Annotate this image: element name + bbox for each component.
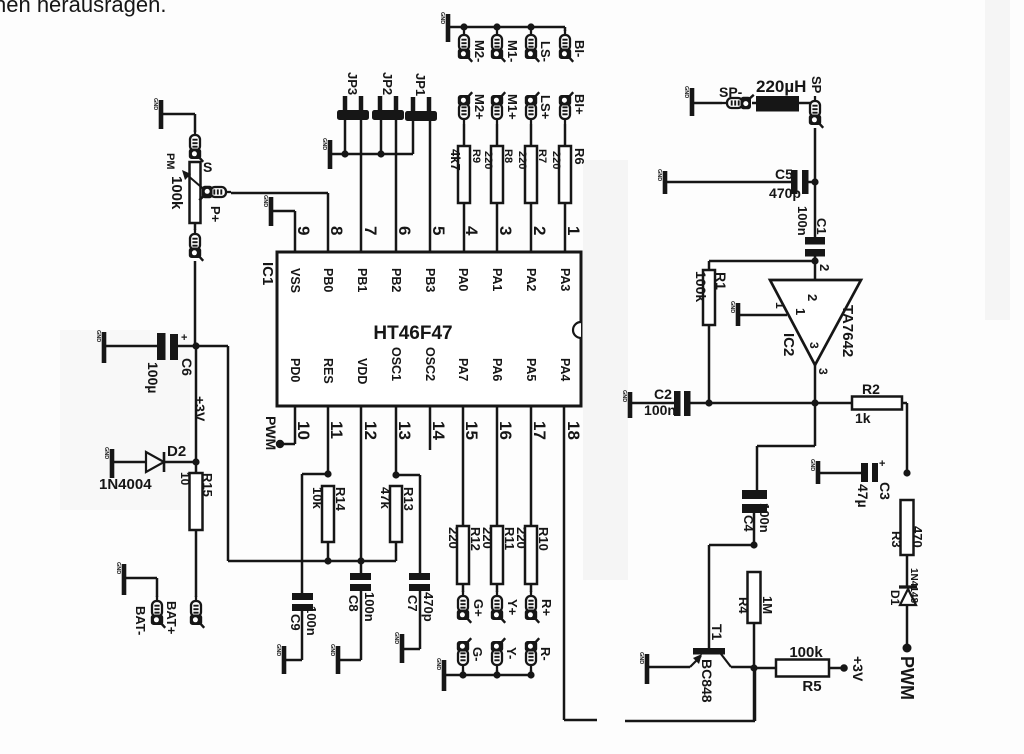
svg-text:M2-: M2- (472, 40, 487, 62)
svg-text:7: 7 (361, 226, 380, 235)
svg-text:M1+: M1+ (505, 94, 520, 120)
svg-text:PB1: PB1 (355, 268, 369, 292)
svg-text:SP: SP (809, 76, 824, 94)
svg-text:GND: GND (275, 644, 281, 656)
svg-text:4k7: 4k7 (448, 149, 463, 171)
svg-text:R14: R14 (333, 487, 348, 512)
svg-text:100n: 100n (757, 503, 772, 533)
svg-text:BC848: BC848 (699, 659, 715, 703)
svg-text:GND: GND (262, 195, 268, 207)
svg-text:100n: 100n (304, 606, 319, 636)
svg-text:12: 12 (361, 421, 380, 440)
svg-text:14: 14 (429, 421, 448, 440)
svg-text:C1: C1 (814, 218, 829, 235)
svg-text:1: 1 (773, 302, 787, 309)
svg-text:PA7: PA7 (456, 358, 470, 381)
svg-text:R-: R- (538, 647, 553, 661)
svg-text:8: 8 (327, 226, 346, 235)
svg-text:10: 10 (294, 421, 313, 440)
svg-text:R13: R13 (401, 487, 416, 511)
svg-text:1: 1 (793, 308, 808, 315)
svg-text:470: 470 (910, 526, 925, 548)
svg-text:PA3: PA3 (558, 268, 572, 291)
svg-text:220: 220 (516, 151, 528, 169)
svg-text:GND: GND (809, 459, 815, 471)
svg-text:470p: 470p (421, 592, 436, 622)
svg-text:GND: GND (321, 138, 327, 150)
svg-text:hen herausragen.: hen herausragen. (0, 0, 166, 17)
svg-text:D2: D2 (167, 443, 186, 460)
svg-text:PA1: PA1 (490, 268, 504, 291)
svg-text:OSC2: OSC2 (423, 347, 437, 381)
svg-text:220: 220 (482, 151, 494, 169)
svg-text:PWM: PWM (897, 656, 917, 700)
svg-text:PM: PM (164, 153, 176, 170)
svg-text:JP3: JP3 (345, 72, 360, 95)
svg-text:220: 220 (446, 527, 461, 549)
svg-text:PB3: PB3 (423, 268, 437, 292)
svg-text:13: 13 (395, 421, 414, 440)
svg-text:100µ: 100µ (145, 362, 161, 393)
svg-text:PA5: PA5 (524, 358, 538, 381)
svg-text:1N4004: 1N4004 (99, 476, 152, 493)
svg-text:PWM: PWM (263, 416, 279, 450)
svg-text:IC1: IC1 (259, 262, 276, 285)
svg-text:4: 4 (462, 226, 481, 236)
svg-text:G+: G+ (471, 599, 486, 617)
svg-text:100k: 100k (168, 176, 185, 210)
svg-text:GND: GND (439, 12, 445, 24)
svg-text:GND: GND (393, 632, 399, 644)
svg-text:C3: C3 (877, 482, 893, 500)
svg-text:100n: 100n (644, 402, 676, 418)
svg-text:2: 2 (805, 294, 820, 301)
svg-text:TA7642: TA7642 (839, 305, 856, 357)
svg-text:VDD: VDD (355, 358, 369, 384)
svg-text:R10: R10 (536, 527, 551, 551)
svg-text:R4: R4 (736, 597, 751, 614)
svg-text:R15: R15 (200, 473, 215, 497)
svg-text:JP2: JP2 (380, 72, 395, 95)
svg-text:BI-: BI- (572, 40, 587, 57)
svg-text:PA6: PA6 (490, 358, 504, 381)
svg-text:IC2: IC2 (780, 333, 797, 356)
svg-text:PA4: PA4 (558, 358, 572, 381)
svg-text:PA2: PA2 (524, 268, 538, 291)
svg-text:GND: GND (621, 390, 627, 402)
svg-text:VSS: VSS (288, 268, 302, 293)
svg-text:C2: C2 (654, 386, 672, 402)
svg-text:3: 3 (496, 226, 515, 235)
svg-text:Y-: Y- (504, 647, 519, 659)
svg-text:GND: GND (638, 652, 644, 664)
svg-text:R6: R6 (572, 148, 587, 165)
svg-text:GND: GND (329, 644, 335, 656)
svg-text:OSC1: OSC1 (389, 347, 403, 381)
svg-text:GND: GND (115, 562, 121, 574)
svg-text:C8: C8 (346, 595, 361, 612)
svg-text:LS+: LS+ (538, 95, 553, 120)
svg-text:1k: 1k (855, 410, 871, 426)
svg-text:+3V: +3V (850, 656, 866, 682)
svg-text:R7: R7 (536, 149, 548, 163)
svg-text:D1: D1 (888, 590, 902, 606)
svg-text:220: 220 (550, 151, 562, 169)
svg-text:470p: 470p (769, 185, 801, 201)
svg-text:10: 10 (178, 472, 192, 486)
svg-text:GND: GND (103, 447, 109, 459)
svg-text:47µ: 47µ (855, 484, 871, 508)
svg-text:RES: RES (321, 358, 335, 384)
svg-text:47k: 47k (378, 487, 393, 509)
svg-text:GND: GND (152, 98, 158, 110)
svg-text:PD0: PD0 (288, 358, 302, 382)
svg-text:1M: 1M (760, 596, 775, 614)
svg-text:PB0: PB0 (321, 268, 335, 292)
svg-text:GND: GND (656, 169, 662, 181)
svg-text:1: 1 (564, 226, 583, 235)
svg-text:100n: 100n (362, 592, 377, 622)
svg-text:GND: GND (435, 658, 441, 670)
svg-text:Y+: Y+ (505, 599, 520, 616)
svg-text:PB2: PB2 (389, 268, 403, 292)
svg-text:R2: R2 (862, 381, 880, 397)
svg-text:+: + (181, 332, 187, 344)
svg-text:+: + (879, 458, 885, 470)
svg-text:PA0: PA0 (456, 268, 470, 291)
svg-text:C5: C5 (775, 166, 793, 182)
svg-text:100k: 100k (693, 271, 709, 302)
svg-text:HT46F47: HT46F47 (373, 323, 452, 344)
svg-text:2: 2 (817, 264, 832, 271)
svg-text:BAT+: BAT+ (164, 601, 179, 635)
svg-text:220µH: 220µH (756, 77, 806, 96)
svg-text:220: 220 (480, 527, 495, 549)
svg-text:JP1: JP1 (413, 73, 428, 96)
svg-text:R+: R+ (539, 599, 554, 616)
svg-text:3: 3 (807, 342, 821, 349)
svg-text:GND: GND (683, 86, 689, 98)
svg-text:C6: C6 (179, 358, 195, 376)
svg-text:C7: C7 (405, 595, 420, 612)
svg-text:1N4148: 1N4148 (908, 568, 919, 603)
svg-text:6: 6 (395, 226, 414, 235)
svg-text:R3: R3 (889, 531, 904, 548)
svg-text:16: 16 (496, 421, 515, 440)
svg-text:R9: R9 (470, 149, 482, 163)
svg-text:P+: P+ (208, 206, 223, 223)
svg-text:10k: 10k (310, 487, 325, 509)
svg-text:BI+: BI+ (572, 94, 587, 115)
svg-text:S: S (203, 159, 212, 175)
svg-text:17: 17 (530, 421, 549, 440)
svg-text:R5: R5 (802, 678, 821, 695)
svg-text:LS-: LS- (538, 41, 553, 62)
svg-text:R8: R8 (502, 149, 514, 163)
svg-text:G-: G- (470, 647, 485, 661)
svg-text:+3V: +3V (192, 396, 208, 422)
svg-text:M2+: M2+ (472, 94, 487, 120)
svg-text:2: 2 (530, 226, 549, 235)
svg-text:5: 5 (429, 226, 448, 235)
svg-text:GND: GND (95, 330, 101, 342)
svg-text:R1: R1 (713, 272, 729, 290)
svg-text:220: 220 (514, 527, 529, 549)
svg-text:T1: T1 (709, 624, 725, 641)
svg-text:100n: 100n (795, 206, 810, 236)
svg-text:9: 9 (294, 226, 313, 235)
svg-text:M1-: M1- (505, 40, 520, 62)
svg-text:GND: GND (729, 301, 735, 313)
svg-text:18: 18 (564, 421, 583, 440)
svg-text:BAT-: BAT- (133, 606, 148, 635)
svg-text:15: 15 (462, 421, 481, 440)
svg-text:3: 3 (816, 368, 830, 375)
svg-text:100k: 100k (789, 644, 823, 661)
svg-text:11: 11 (327, 421, 346, 439)
